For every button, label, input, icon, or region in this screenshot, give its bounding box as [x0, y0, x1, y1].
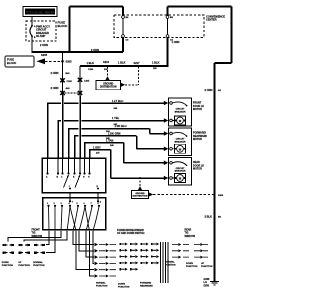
dashed drop from S217	[138, 67, 140, 85]
motor M2 box	[169, 128, 192, 156]
svg-text:BLOCK: BLOCK	[58, 24, 68, 28]
svg-text:1 DK GRN: 1 DK GRN	[108, 132, 121, 136]
convenience center dashed box	[114, 15, 204, 38]
svg-text:CIRCUIT: CIRCUIT	[176, 139, 186, 141]
wire top horizontal	[69, 5, 123, 7]
svg-text:S217: S217	[134, 61, 141, 65]
wire w4 to motor2 down	[74, 132, 168, 158]
label S205	[61, 60, 64, 63]
svg-text:OF AND DOWN SWITCH: OF AND DOWN SWITCH	[117, 232, 145, 235]
svg-text:1 ORN: 1 ORN	[172, 40, 180, 44]
svg-text:FUNCTION: FUNCTION	[33, 265, 45, 267]
wire breaker down	[31, 37, 33, 53]
wire drop to convenience center	[122, 6, 124, 15]
svg-text:WINDOW: WINDOW	[185, 235, 196, 238]
dashed wire to S217 drop	[125, 84, 138, 86]
right contact rows	[165, 243, 213, 268]
ground distribution box 2	[132, 177, 224, 199]
svg-text:FUNCTION: FUNCTION	[201, 266, 213, 268]
motor M3 box	[169, 158, 192, 186]
wire from tag to breaker	[31, 17, 33, 26]
vertical wire bundle	[161, 242, 169, 283]
wire w3 to motor2 up	[68, 124, 168, 158]
fuse block ref box	[5, 56, 34, 67]
wire ground bus horizontal	[80, 65, 168, 67]
wire jog left	[215, 62, 232, 64]
svg-text:1 TAN: 1 TAN	[106, 138, 113, 142]
svg-text:C205: C205	[84, 81, 90, 83]
svg-text:CIRCUIT: CIRCUIT	[176, 168, 186, 170]
svg-text:FUNCTION: FUNCTION	[2, 265, 14, 267]
label FUSE BLOCK	[58, 21, 68, 29]
svg-text:GROUND: GROUND	[135, 193, 145, 195]
svg-text:CIRCUIT: CIRCUIT	[176, 109, 186, 111]
right block title	[185, 229, 196, 238]
wire B restored	[79, 96, 81, 159]
svg-text:GRN: GRN	[204, 284, 210, 287]
svg-text:2 ORN: 2 ORN	[40, 43, 48, 47]
svg-text:1 GRY: 1 GRY	[93, 145, 101, 149]
motor M1 labels	[193, 102, 204, 111]
dashed wire to S205 node	[45, 60, 63, 62]
wire w2 to motor1 down	[58, 116, 169, 158]
connector X wireA upper	[60, 78, 72, 83]
connector X wireB lower	[78, 91, 82, 95]
wire w6 to motor3 down	[89, 145, 168, 180]
node S210 dashed drop	[107, 67, 109, 77]
ground distribution box	[96, 80, 121, 89]
svg-text:BLOCK: BLOCK	[7, 61, 16, 65]
wire A down from feed	[62, 52, 64, 158]
svg-text:FUNCTION: FUNCTION	[18, 265, 30, 267]
switch levers	[64, 175, 69, 188]
center-right title	[117, 229, 145, 235]
svg-text:MOTOR: MOTOR	[193, 108, 202, 111]
wire top right horizontal	[168, 5, 232, 7]
svg-text:C200: C200	[88, 69, 94, 71]
svg-text:NORMAL: NORMAL	[165, 261, 175, 264]
svg-text:FUNCTION: FUNCTION	[96, 285, 108, 287]
svg-text:S205: S205	[41, 53, 48, 57]
wire right edge down	[230, 6, 232, 63]
cc right terminals	[166, 16, 173, 42]
arrow out of ground dist	[121, 83, 126, 87]
cc left terminals	[122, 16, 129, 42]
svg-text:MOTOR: MOTOR	[193, 138, 202, 141]
left switch contact groups	[2, 244, 45, 267]
svg-text:DISTRIBUTION: DISTRIBUTION	[133, 196, 148, 198]
center rows connector details	[95, 243, 160, 289]
arrow to fuse block	[37, 58, 46, 64]
svg-text:DOWN: DOWN	[118, 284, 125, 286]
svg-text:1 YEL: 1 YEL	[112, 116, 120, 120]
svg-text:BREAKER: BREAKER	[175, 110, 186, 113]
motor M3 labels	[193, 161, 204, 170]
svg-text:S205: S205	[66, 60, 73, 64]
wire cc left output down	[122, 37, 124, 52]
dashed connector link	[65, 92, 78, 94]
hot-at-all-times tag	[23, 7, 57, 17]
connector X wireB upper	[78, 78, 90, 83]
ground G306	[204, 278, 220, 287]
switch label left	[32, 229, 43, 238]
svg-text:BREAKER: BREAKER	[175, 170, 186, 173]
svg-text:1 BLK: 1 BLK	[152, 61, 160, 65]
svg-text:2 ORN: 2 ORN	[51, 86, 59, 90]
svg-text:CENTER: CENTER	[206, 18, 217, 22]
svg-text:DOWN: DOWN	[186, 263, 193, 265]
svg-text:1 BLK: 1 BLK	[87, 61, 95, 65]
wire crossing gaps	[61, 102, 82, 137]
wire B down from ground bus	[79, 66, 81, 158]
wire right rail down	[213, 63, 215, 282]
switch assembly box	[42, 158, 106, 193]
svg-text:1 DK BLU: 1 DK BLU	[115, 124, 127, 128]
label CONVENIENCE CENTER	[206, 15, 225, 22]
connector cluster grid center	[120, 244, 157, 269]
svg-text:NORMAL: NORMAL	[96, 282, 106, 285]
arrow into ground dist	[105, 76, 109, 80]
svg-text:2 ORN: 2 ORN	[91, 48, 99, 52]
svg-text:FORWARD: FORWARD	[140, 282, 152, 285]
wires below switch detail	[8, 231, 94, 276]
svg-text:2 BLK: 2 BLK	[205, 215, 213, 219]
svg-text:DISTRIBUTION: DISTRIBUTION	[100, 86, 117, 88]
wire cc right output down to ground bus	[167, 37, 169, 65]
svg-text:BREAKER: BREAKER	[175, 140, 186, 143]
svg-text:MOTOR: MOTOR	[193, 168, 202, 171]
wire cc right feed from top	[166, 6, 168, 15]
svg-text:C205: C205	[67, 81, 73, 83]
svg-text:DOWN: DOWN	[2, 262, 9, 264]
svg-text:1 BLK: 1 BLK	[118, 61, 126, 65]
svg-text:1 LT BLU: 1 LT BLU	[112, 99, 123, 103]
wire A restored	[62, 95, 64, 158]
svg-text:2 ORN: 2 ORN	[205, 88, 213, 92]
wire riser to top	[68, 6, 70, 52]
svg-text:UP: UP	[201, 263, 205, 265]
fuse block dashed box	[26, 21, 56, 41]
svg-text:POSITION: POSITION	[165, 264, 176, 266]
motor M2 labels	[193, 132, 207, 141]
wire w5 to motor3 up	[84, 138, 168, 165]
wire main feed horizontal	[31, 51, 123, 53]
wire w1 to motor1 up	[47, 99, 168, 158]
svg-text:S210: S210	[103, 60, 110, 64]
svg-text:NORMAL: NORMAL	[33, 261, 43, 264]
svg-text:FUNCTION: FUNCTION	[118, 286, 130, 288]
svg-text:FUNCTION: FUNCTION	[186, 266, 198, 268]
motor M1 box	[169, 98, 192, 126]
connector X wireA at C2	[60, 91, 64, 95]
svg-text:S306: S306	[218, 195, 224, 197]
circuit breaker CB	[30, 24, 50, 39]
switch detail box	[43, 193, 106, 231]
svg-text:30 AMP: 30 AMP	[36, 34, 46, 38]
svg-text:UP: UP	[18, 262, 22, 264]
svg-text:HOT AT ALL TIMES: HOT AT ALL TIMES	[26, 10, 54, 14]
svg-text:REARWARD: REARWARD	[140, 284, 153, 287]
svg-text:GROUND: GROUND	[103, 83, 114, 85]
svg-text:J: J	[69, 186, 70, 188]
svg-text:2 ORN: 2 ORN	[51, 71, 59, 75]
